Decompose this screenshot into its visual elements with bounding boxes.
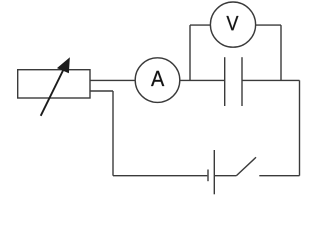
capacitor C1 right plate xyxy=(241,57,243,106)
wire rheostat to ammeter xyxy=(90,79,135,81)
wire ammeter to capacitor left plate xyxy=(180,79,225,81)
variable resistor arrow shaft xyxy=(41,70,64,116)
wire capacitor to right side xyxy=(242,79,300,81)
voltmeter circle U2 xyxy=(210,2,255,47)
wire switch contact to right corner xyxy=(259,175,299,177)
wire bottom left to battery xyxy=(113,175,207,177)
label V of voltmeter xyxy=(226,16,238,30)
wire to voltmeter left xyxy=(190,24,210,26)
capacitor C1 left plate xyxy=(224,57,226,106)
wire voltmeter branch down xyxy=(280,25,282,80)
ammeter circle U1 xyxy=(135,58,180,103)
wire down from rheostat lower terminal xyxy=(112,91,114,176)
variable resistor body xyxy=(18,70,90,98)
node junction voltmeter left branch xyxy=(189,25,191,80)
wire right side down xyxy=(299,80,301,175)
wire rheostat lower terminal xyxy=(90,90,113,92)
label A of ammeter xyxy=(151,71,164,86)
wire battery to switch xyxy=(214,175,236,177)
switch S1 blade xyxy=(236,157,256,175)
wire voltmeter right xyxy=(256,24,281,26)
battery positive long plate xyxy=(213,150,215,194)
battery negative short plate xyxy=(207,170,209,182)
variable resistor arrowhead xyxy=(58,58,70,72)
